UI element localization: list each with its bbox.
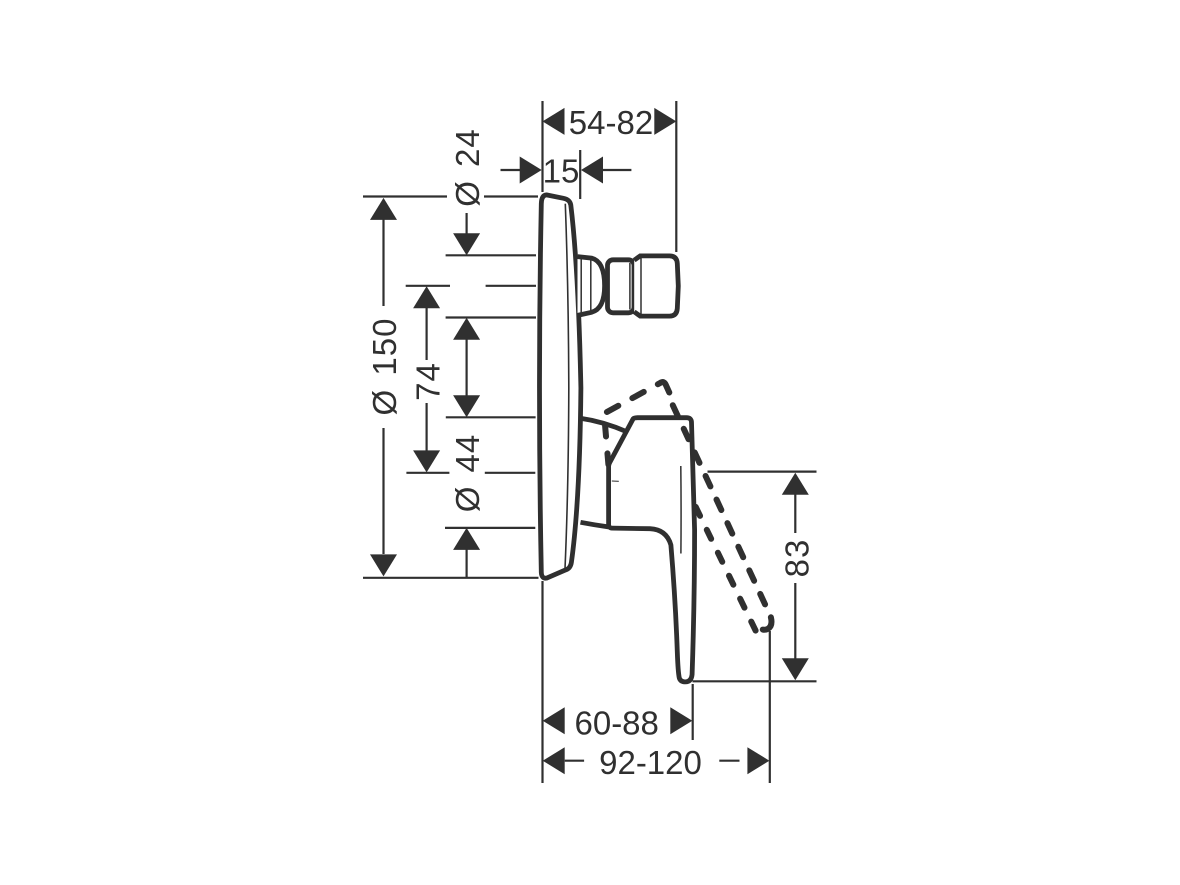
arrow 15 left (outside, pointing right) [520,157,542,184]
handle hub small tick [612,480,619,482]
extension line vertical dashed-lever tip [769,631,771,783]
arrow 92-120 right [747,747,769,774]
arrow Ø150 bottom (pointing down) [370,554,397,576]
dimension 92-120 tail lines [565,760,740,762]
arrow 83 top (pointing up) [782,473,809,495]
svg-text:Ø 150: Ø 150 [366,318,403,416]
dashed handle upper-left edge (raised position) [607,383,661,413]
arrow Ø150 top (pointing up) [370,198,397,220]
escutcheon plate outline [540,195,581,578]
knob flange inner lines [581,259,591,314]
arrow 60-88 left [543,707,565,734]
escutcheon plate inner rim line [565,204,569,569]
svg-text:15: 15 [543,153,580,190]
arrow 54-82 left [543,108,565,135]
handle body and lever (solid position) [609,418,695,682]
extension line handle hub bottom (Ø44 bottom) [445,527,535,529]
svg-text:92-120: 92-120 [599,744,702,781]
extension line handle centerline (74 bottom) [406,472,535,474]
dimension 74 line segments [426,308,428,451]
extension line vertical plate front (x=542.5 top) [541,101,543,192]
svg-text:60-88: 60-88 [574,704,658,741]
dimension 15 tail lines [501,169,632,171]
dashed handle tip [763,617,772,629]
arrow 83 bottom (pointing down) [782,658,809,680]
dashed handle right edge [673,405,771,616]
diverter knob flange (piece attached to plate) [578,257,605,316]
extension line knob bottom (Ø24 bottom) [446,316,536,318]
extension line top of plate (Ø150 top) [363,195,538,197]
svg-text:83: 83 [778,539,815,578]
diverter knob head (right piece) [634,256,678,316]
handle inner line [680,466,682,554]
extension line handle hub top (Ø44 top) [446,416,536,418]
handle hub top contour [580,418,627,432]
extension line knob centerline (74 top) [406,285,536,287]
diverter knob neck (middle piece) [608,260,635,313]
dimension Ø24/Ø44 vertical line segments [466,213,468,577]
svg-text:Ø 44: Ø 44 [449,434,486,513]
arrow 74 bottom (pointing down) [413,450,440,472]
dimension Ø150 line segments [382,220,384,555]
arrow Ø24 bottom (outside, pointing up) [453,318,480,340]
arrow 54-82 right [654,108,676,135]
svg-text:74: 74 [410,362,447,401]
knob neck inner line [629,263,631,310]
knob head inner line [640,258,642,315]
arrow Ø24 top (outside, pointing down) [453,233,480,255]
extension line vertical wall face (x=580) [579,150,581,199]
extension line vertical plate front bottom [541,581,543,783]
arrow 74 top (pointing up) [413,286,440,308]
arrow 60-88 right [670,707,692,734]
arrow Ø44 bottom (outside, pointing up) [453,528,480,550]
svg-text:54-82: 54-82 [569,104,653,141]
arrow 92-120 left [543,747,565,774]
extension line 83 top [708,471,817,473]
arrow Ø44 top (outside, pointing down) [453,395,480,417]
arrow 15 right (outside, pointing left) [581,157,603,184]
extension line 83 bottom [693,680,817,682]
dashed handle hub left edge [605,425,608,465]
handle hub bottom contour [581,522,609,527]
dashed handle lower edge [694,504,756,631]
extension line knob top (Ø24 top) [446,254,536,256]
extension line plate bottom (Ø150 bottom) [363,577,539,579]
svg-text:Ø 24: Ø 24 [449,128,486,207]
extension line vertical knob end (x=676) [675,101,677,252]
extension line vertical lever end [692,684,694,740]
dimension 83 line segments [794,494,796,659]
dashed handle top corner [661,382,669,392]
